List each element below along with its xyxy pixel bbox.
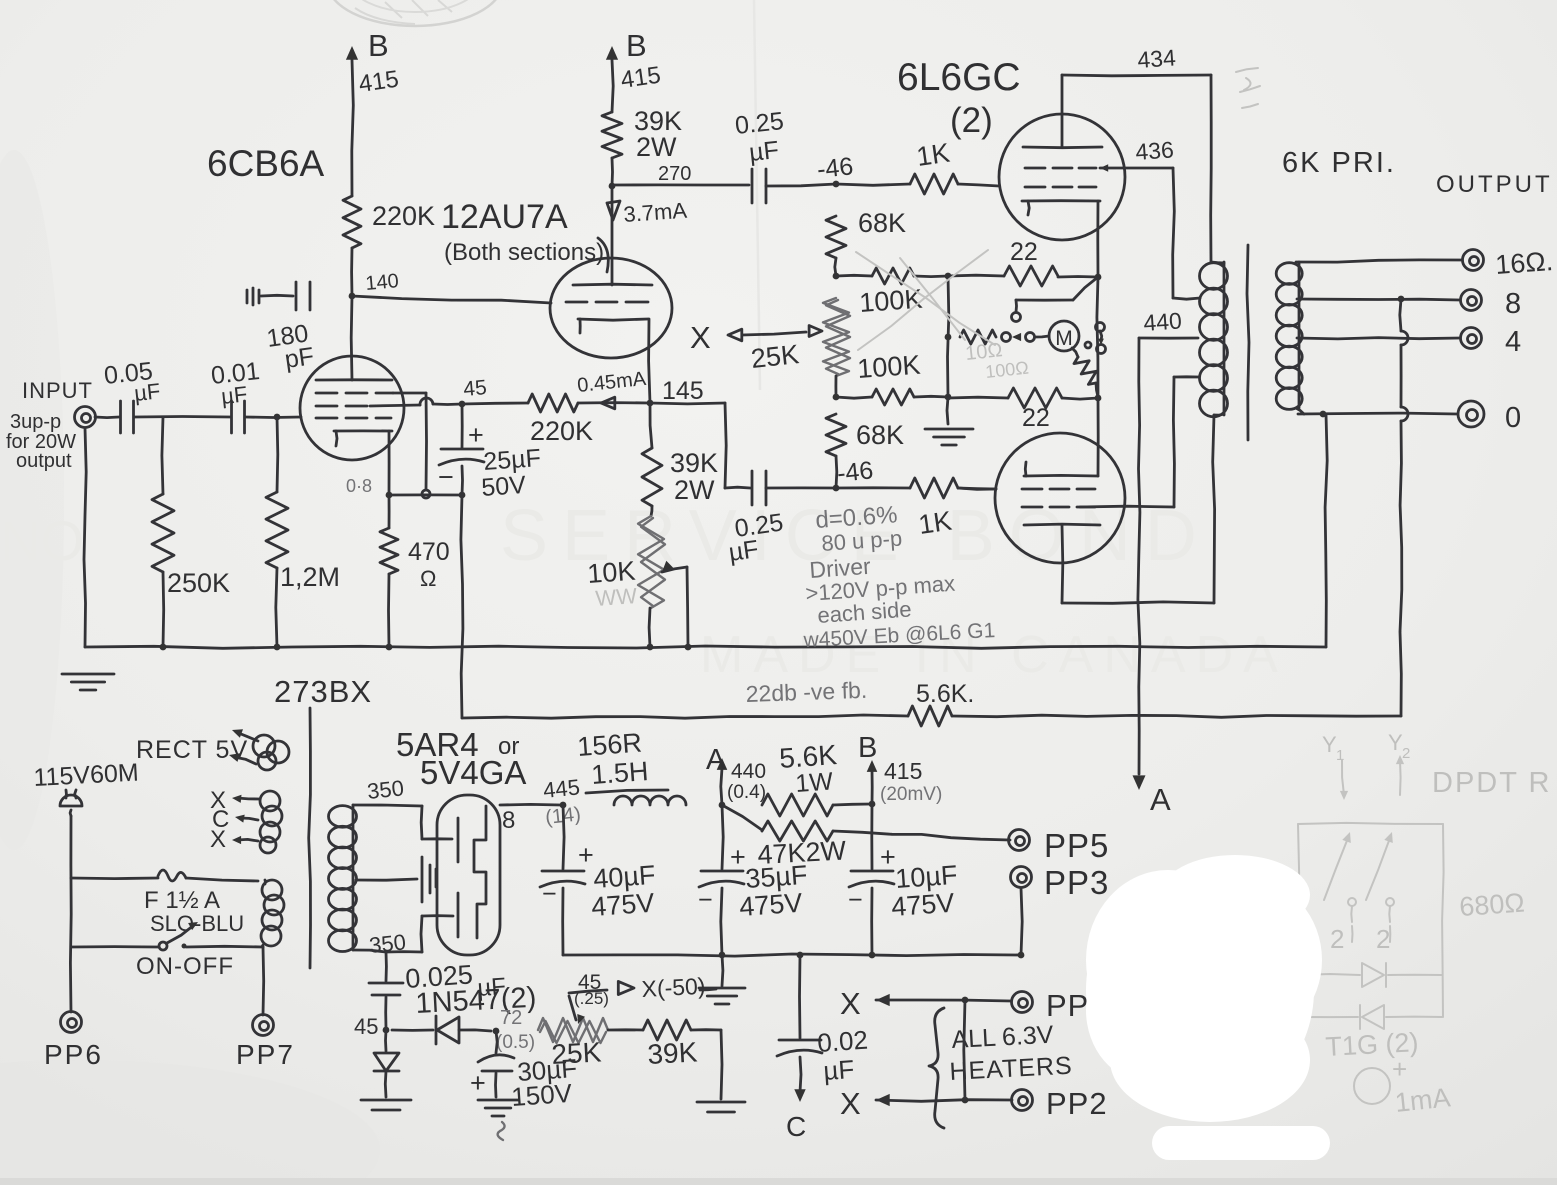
svg-text:+: + <box>730 842 746 872</box>
wire HV bottom to rectifier <box>353 916 453 952</box>
resistor 5.6K 1W dropper <box>762 739 871 816</box>
svg-text:2: 2 <box>1330 924 1344 954</box>
svg-text:RECT 5V: RECT 5V <box>136 736 248 764</box>
wire meter branch <box>945 330 1049 344</box>
tube 5AR4 rectifier <box>437 795 500 955</box>
fuse F 1.5A <box>71 870 258 936</box>
svg-text:output: output <box>16 450 72 472</box>
label 6K PRI <box>1282 147 1396 179</box>
svg-text:+: + <box>1392 1054 1407 1084</box>
svg-text:1W: 1W <box>794 767 834 798</box>
svg-text:+: + <box>468 420 484 450</box>
svg-text:68K: 68K <box>858 208 906 238</box>
node B supply arrow (left B+ 415) <box>346 28 401 196</box>
svg-text:2W: 2W <box>636 132 677 162</box>
svg-text:(0.5): (0.5) <box>496 1032 535 1053</box>
wire PS bottom rail <box>563 952 1024 959</box>
capacitor 35uF 475V <box>698 805 808 955</box>
resistor 250K grid leak <box>152 417 230 647</box>
svg-text:25K: 25K <box>749 339 800 374</box>
svg-text:INPUT: INPUT <box>22 378 93 403</box>
capacitor 40uF 475V <box>540 805 656 955</box>
node B supply arrow (right B+ 415) <box>606 28 663 112</box>
wire cathode rail <box>1097 277 1098 476</box>
svg-text:X: X <box>840 1086 861 1121</box>
resistor 5.6K feedback <box>908 680 974 726</box>
svg-text:PP2: PP2 <box>1046 1086 1108 1121</box>
ghost scribble top right <box>1236 68 1260 108</box>
node 0.8 cathode <box>346 476 465 498</box>
wire feedback to cathode node <box>461 495 463 718</box>
svg-text:72: 72 <box>500 1007 522 1029</box>
svg-text:SLO-BLU: SLO-BLU <box>150 911 244 936</box>
svg-text:B: B <box>626 28 647 63</box>
svg-text:2: 2 <box>1376 924 1390 954</box>
svg-text:6K PRI.: 6K PRI. <box>1282 147 1396 179</box>
wire feedback line <box>462 715 1401 718</box>
svg-text:PP3: PP3 <box>1044 864 1109 901</box>
svg-text:+: + <box>578 840 594 870</box>
winding HV secondary 350-0-350 <box>329 805 357 952</box>
svg-text:-46: -46 <box>816 152 855 184</box>
wire 436 screen line <box>1100 136 1200 299</box>
svg-text:B: B <box>368 28 389 63</box>
svg-text:OUTPUT: OUTPUT <box>1436 171 1553 198</box>
wire 6CB6A screen to 45 node <box>370 398 462 406</box>
resistor 22 lower <box>948 388 1098 432</box>
svg-text:DPDT R: DPDT R <box>1432 767 1551 799</box>
svg-text:350: 350 <box>368 929 407 958</box>
node bus junctions <box>160 644 692 651</box>
wire bias rail <box>947 276 949 424</box>
svg-text:350: 350 <box>366 775 405 804</box>
node A 440 <box>706 744 766 808</box>
ground input <box>62 674 114 690</box>
svg-text:1K: 1K <box>915 138 952 172</box>
svg-text:273BX: 273BX <box>274 674 372 709</box>
svg-text:0·8: 0·8 <box>346 476 372 496</box>
resistor 22 upper <box>948 238 1098 286</box>
svg-text:PP7: PP7 <box>236 1039 295 1070</box>
resistor 68K upper <box>826 208 906 276</box>
svg-text:+: + <box>880 842 896 872</box>
svg-text:45: 45 <box>354 1014 378 1039</box>
svg-text:B: B <box>858 732 877 764</box>
node B 415 <box>858 732 942 807</box>
node 145 <box>647 377 704 406</box>
node PP3 <box>1011 864 1110 955</box>
svg-text:ON-OFF: ON-OFF <box>136 953 234 980</box>
svg-text:22db -ve fb.: 22db -ve fb. <box>745 677 867 707</box>
resistor 39K bias <box>608 1020 721 1070</box>
node 445 <box>542 774 582 829</box>
wire 6CB6A suppressor tie <box>393 393 430 498</box>
svg-text:0: 0 <box>1505 402 1521 434</box>
svg-text:22: 22 <box>1022 404 1050 432</box>
wire upper cathode to rail <box>1096 201 1099 277</box>
squiggle mark <box>498 1122 505 1140</box>
wire lower screen <box>1080 377 1199 507</box>
tube 6CB6A <box>300 296 404 460</box>
resistor 25K bias pot <box>538 1018 608 1070</box>
svg-text:Y: Y <box>1388 730 1403 755</box>
svg-text:220K: 220K <box>372 201 435 231</box>
label 10 ohm ghost <box>964 339 1029 382</box>
svg-text:68K: 68K <box>856 420 904 450</box>
svg-text:440: 440 <box>1143 307 1183 336</box>
ground 39K <box>697 1030 745 1112</box>
svg-text:45: 45 <box>462 376 487 401</box>
wire C1 to C2 <box>134 415 231 418</box>
ground A-node <box>699 955 745 1004</box>
label driver notes <box>802 501 996 652</box>
wire mains left <box>69 816 73 1012</box>
label 25K + X arrows <box>690 320 822 374</box>
resistor 1K upper grid stopper <box>836 138 999 194</box>
wire 270 line <box>612 163 749 185</box>
svg-text:PP5: PP5 <box>1044 827 1109 864</box>
svg-text:0.25: 0.25 <box>734 107 785 140</box>
capacitor 0.05uF input <box>103 357 162 433</box>
svg-text:8: 8 <box>1505 288 1521 320</box>
svg-text:ALL 6.3V: ALL 6.3V <box>951 1021 1055 1054</box>
svg-text:475V: 475V <box>738 888 803 922</box>
svg-text:A: A <box>706 744 726 776</box>
svg-text:250K: 250K <box>167 568 230 598</box>
svg-text:pF: pF <box>283 342 316 374</box>
label 115V 60M <box>33 759 139 792</box>
winding primary 115V <box>261 880 284 947</box>
svg-text:µF: µF <box>822 1054 855 1086</box>
svg-text:+: + <box>470 1068 486 1098</box>
tube 12AU7A <box>550 258 672 358</box>
svg-text:25K: 25K <box>551 1036 603 1070</box>
resistor meter shunt <box>1072 348 1098 397</box>
svg-text:A: A <box>1150 782 1171 817</box>
svg-text:1.5H: 1.5H <box>590 756 649 790</box>
capacitor 10uF 475V <box>848 804 958 955</box>
svg-text:M: M <box>1055 327 1073 350</box>
svg-text:F 1½ A: F 1½ A <box>144 887 220 914</box>
svg-text:µF: µF <box>133 378 162 406</box>
capacitor 0.02uF heater bias <box>777 955 869 1142</box>
svg-text:NO: NO <box>0 509 84 572</box>
wire HV center tap <box>356 857 436 902</box>
wire 440 center tap to A <box>1133 307 1199 817</box>
svg-text:PP6: PP6 <box>44 1039 103 1070</box>
svg-text:X: X <box>840 986 861 1021</box>
label 5AR4 or 5V4GA <box>396 726 526 791</box>
svg-text:415: 415 <box>357 66 400 98</box>
resistor 470 ohm cathode <box>380 495 450 647</box>
wire ground bus <box>84 428 1326 648</box>
svg-text:6CB6A: 6CB6A <box>207 143 325 184</box>
wire 140 to 12AU7A grid <box>352 296 551 303</box>
transformer core <box>1247 245 1249 440</box>
wire 12AU7A plate <box>607 186 688 285</box>
svg-text:−: − <box>542 880 557 908</box>
label heaters brace <box>929 1008 1073 1128</box>
wire 8 ohm tap <box>1297 288 1521 320</box>
svg-text:−: − <box>438 462 454 492</box>
svg-text:µF: µF <box>727 535 760 567</box>
wire lower grid <box>958 488 996 489</box>
resistor 39K 2W plate load <box>602 106 682 186</box>
label 22db fb <box>745 677 867 707</box>
resistor 1K lower grid stopper <box>836 478 996 540</box>
resistor 68K lower <box>826 414 904 488</box>
switch ON-OFF <box>71 922 263 980</box>
label 273BX <box>274 674 372 709</box>
wire to -46 upper <box>766 184 836 186</box>
node splitter upper <box>833 273 840 280</box>
winding heater XCX <box>210 787 282 853</box>
svg-text:(Both sections): (Both sections) <box>444 239 604 266</box>
svg-text:39K: 39K <box>670 448 718 478</box>
node PP7 <box>236 947 295 1070</box>
svg-text:X: X <box>690 320 711 355</box>
transformer 273BX core <box>309 708 311 968</box>
svg-text:1: 1 <box>1336 747 1344 764</box>
resistor 220K plate load (6CB6A) <box>343 196 435 248</box>
diode 1N547 series <box>392 1016 491 1044</box>
meter M <box>1049 321 1079 351</box>
svg-text:220K: 220K <box>530 416 593 446</box>
svg-text:0.02: 0.02 <box>816 1025 869 1058</box>
wire heater line 1 <box>840 986 1011 1021</box>
svg-text:2W: 2W <box>674 475 715 505</box>
wire C2 to 6CB6A grid <box>245 416 301 419</box>
svg-text:µF: µF <box>748 136 780 167</box>
node PP2 <box>1012 1086 1108 1121</box>
wire feedback from 8 ohm tap <box>1400 299 1408 716</box>
tube 6L6GC lower <box>995 433 1125 563</box>
wire 434 plate line <box>1062 44 1211 262</box>
label 1N547 (2) <box>415 982 537 1020</box>
node 72 <box>493 1007 535 1053</box>
svg-text:X(-50): X(-50) <box>641 973 706 1002</box>
svg-text:−: − <box>698 886 713 914</box>
wire 220K to node 140 <box>350 248 353 296</box>
label 0.45mA arrow <box>576 368 648 409</box>
ghost erased X marks <box>856 250 995 350</box>
svg-text:C: C <box>786 1111 806 1142</box>
resistor 220K to 145 <box>462 394 650 446</box>
node PP5 <box>1009 827 1110 864</box>
svg-text:415: 415 <box>619 62 662 94</box>
node PP1 <box>1012 988 1108 1023</box>
wire 0 tap <box>1296 401 1521 434</box>
label OUTPUT <box>1436 171 1553 198</box>
wire rectifier cathode out <box>500 804 561 834</box>
svg-text:680Ω: 680Ω <box>1458 888 1525 922</box>
node plate 270 <box>609 183 616 190</box>
svg-text:Y: Y <box>1322 732 1337 757</box>
svg-text:150V: 150V <box>510 1078 573 1112</box>
wire bias tap X-50 <box>569 971 716 1024</box>
capacitor 180pF coupling <box>247 282 316 374</box>
wire 12AU7A cathode to 145 <box>649 319 650 403</box>
svg-text:436: 436 <box>1135 136 1175 165</box>
label 350 bottom <box>368 929 407 958</box>
resistor 39K 2W divider <box>642 403 718 516</box>
capacitor 25uF 50V cathode bypass <box>438 404 542 502</box>
resistor 100K lower <box>836 350 948 405</box>
node -46 lower <box>833 456 875 491</box>
svg-text:12AU7A: 12AU7A <box>441 198 568 236</box>
white blob <box>1086 855 1330 1160</box>
svg-text:3up-p: 3up-p <box>10 411 61 433</box>
node cathode rail lower <box>1095 395 1102 402</box>
svg-text:140: 140 <box>365 270 400 295</box>
label 6L6GC (2) <box>897 56 1021 140</box>
svg-text:39K: 39K <box>647 1036 699 1070</box>
wire HV top to rectifier <box>353 805 452 839</box>
wire heater line 2 <box>840 1000 1012 1121</box>
resistor 100K upper <box>836 268 948 318</box>
svg-text:434: 434 <box>1137 44 1177 73</box>
svg-text:X: X <box>210 826 226 853</box>
svg-text:1mA: 1mA <box>1393 1082 1451 1118</box>
svg-text:270: 270 <box>658 163 691 185</box>
label RECT 5V <box>136 736 248 764</box>
diode 1N547 shunt <box>361 1030 411 1110</box>
svg-text:475V: 475V <box>590 888 655 922</box>
potentiometer 10K WW <box>586 516 688 647</box>
capacitor 0.025uF <box>369 952 507 1028</box>
svg-text:Ω: Ω <box>420 566 436 591</box>
wire lower plate <box>1062 415 1215 603</box>
svg-text:445: 445 <box>542 774 581 803</box>
capacitor 30uF 150V <box>470 1031 578 1116</box>
svg-text:4: 4 <box>1505 326 1521 358</box>
svg-text:µF: µF <box>220 381 249 409</box>
resistor 1.2M <box>266 414 340 647</box>
svg-text:145: 145 <box>662 377 704 405</box>
ground splitter <box>925 429 973 445</box>
wire meter tap upper <box>1012 277 1099 322</box>
svg-text:16Ω.: 16Ω. <box>1494 246 1554 280</box>
resistor 47K 2W bias feed <box>722 805 1010 870</box>
node -46 upper <box>816 152 855 187</box>
capacitor 0.25uF lower coupling <box>650 403 836 567</box>
node splitter lower <box>833 394 952 401</box>
node cathode rail upper <box>1095 274 1102 281</box>
node 140 <box>349 270 400 299</box>
wire input to C1 <box>95 416 119 419</box>
tube 6L6GC upper <box>999 114 1125 240</box>
svg-text:(2): (2) <box>950 101 993 140</box>
svg-text:100K: 100K <box>856 350 921 384</box>
node bias rail upper <box>945 273 952 280</box>
svg-text:8: 8 <box>502 807 515 834</box>
potentiometer 25K balance <box>823 298 850 397</box>
transformer primary winding <box>1200 262 1228 417</box>
svg-text:5V4GA: 5V4GA <box>420 754 526 791</box>
svg-text:22: 22 <box>1010 238 1038 266</box>
svg-text:115V60M: 115V60M <box>33 759 139 792</box>
svg-text:415: 415 <box>884 758 922 784</box>
svg-text:(0.4): (0.4) <box>727 782 766 803</box>
svg-text:1,2M: 1,2M <box>280 562 340 592</box>
svg-text:(20mV): (20mV) <box>880 784 942 805</box>
label input level <box>6 411 76 472</box>
svg-text:50V: 50V <box>480 471 527 502</box>
node 45 (6CB6A screen) <box>459 376 488 407</box>
svg-text:−: − <box>848 886 863 914</box>
wire 6CB6A cathode <box>388 431 391 495</box>
wire 4 ohm tap <box>1297 326 1521 358</box>
label 350 top <box>366 775 405 804</box>
node 45 bias <box>354 1014 389 1039</box>
svg-text:5.6K.: 5.6K. <box>916 680 974 708</box>
node meter contacts <box>1085 323 1106 354</box>
svg-text:470: 470 <box>408 538 450 566</box>
ghost pencil DPDT meter circuit <box>1297 730 1551 1118</box>
svg-text:3.7mA: 3.7mA <box>623 198 688 227</box>
svg-text:6L6GC: 6L6GC <box>897 56 1021 99</box>
capacitor 0.25uF upper coupling <box>734 107 785 203</box>
svg-text:440: 440 <box>731 760 766 783</box>
svg-text:-46: -46 <box>836 456 875 488</box>
winding rectifier 5V <box>229 729 289 770</box>
inductor choke 156R 1.5H <box>576 728 686 805</box>
label 6CB6A <box>207 143 325 184</box>
node input terminal <box>22 378 96 428</box>
svg-text:475V: 475V <box>890 888 955 922</box>
svg-text:1K: 1K <box>917 506 954 540</box>
label 12AU7A <box>441 198 608 272</box>
transformer secondary winding <box>1276 262 1302 409</box>
node mains plug <box>60 790 82 816</box>
svg-text:(.25): (.25) <box>574 989 609 1008</box>
wire 0 tap to ground bus <box>1325 414 1327 647</box>
svg-text:2: 2 <box>1402 745 1410 762</box>
svg-text:WW: WW <box>595 583 638 611</box>
wire 16 ohm tap <box>1296 246 1554 280</box>
node PP6 <box>44 1012 103 1071</box>
capacitor 0.01uF <box>210 357 261 433</box>
